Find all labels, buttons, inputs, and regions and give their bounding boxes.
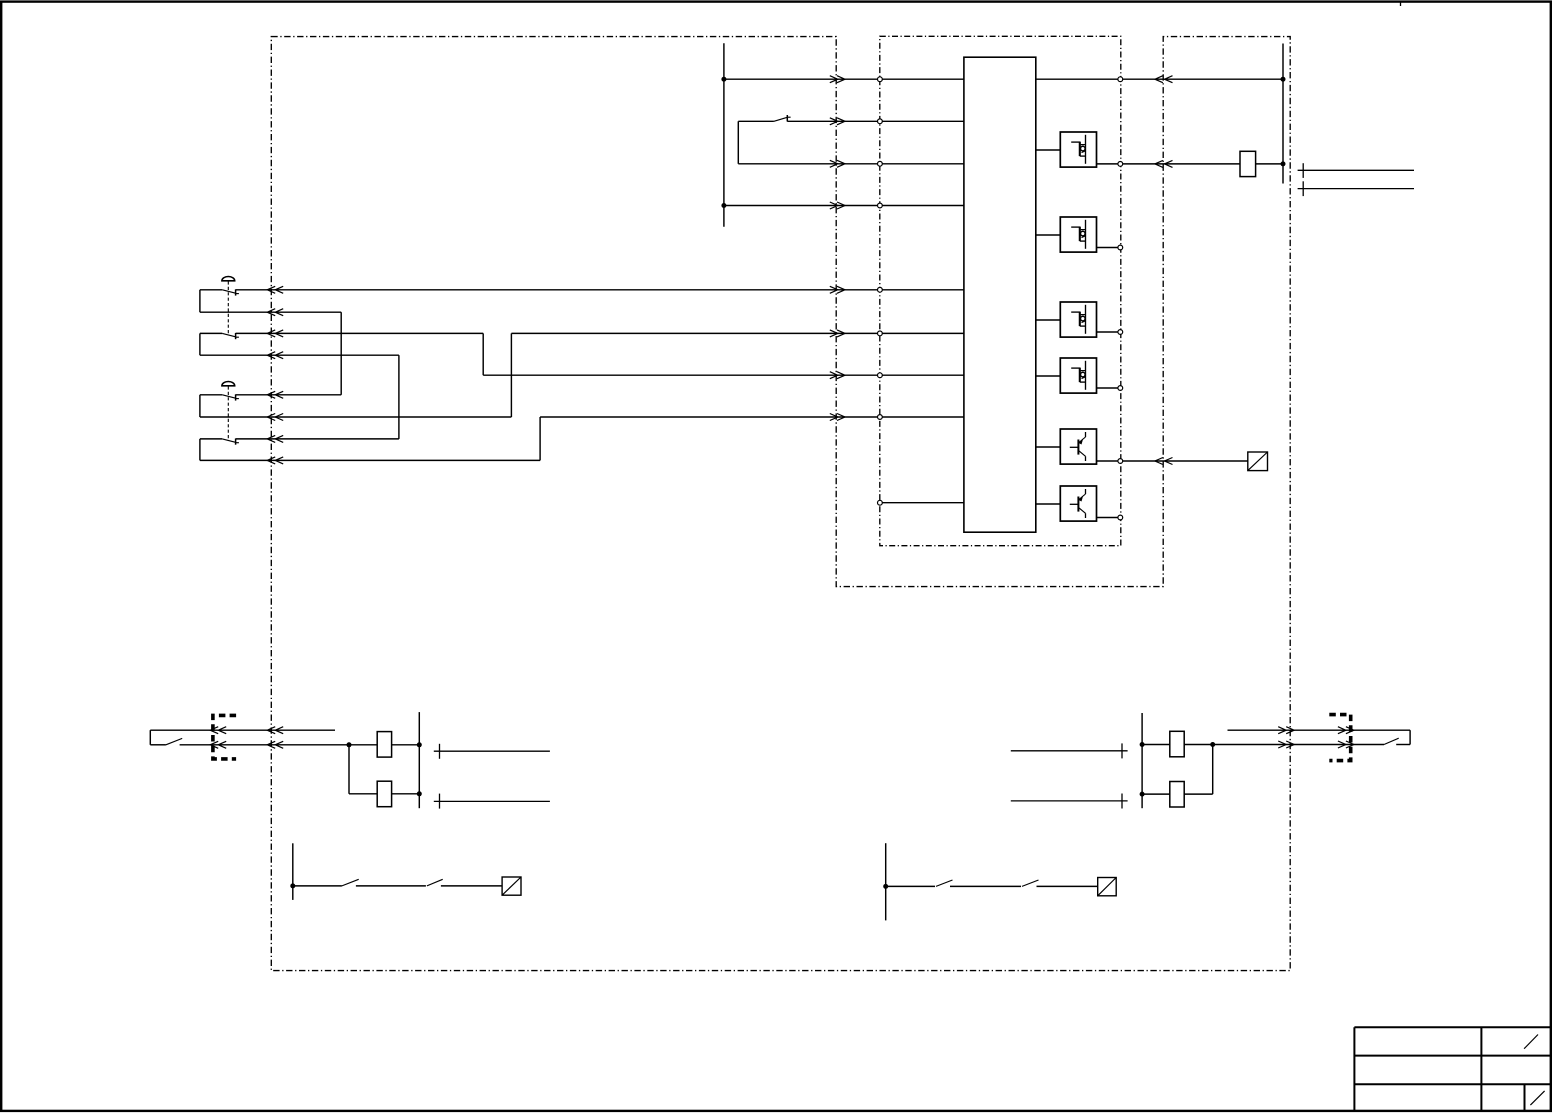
wire R3 loop to module [738,163,964,165]
title block table [1354,1027,1551,1111]
E-stop contact on L5 [222,394,239,400]
wire L7 main [236,438,399,440]
return bus vertical left [418,712,420,808]
wire bottom-right line2 [1213,744,1384,746]
driver transistor Q2 [1060,486,1096,521]
module pin circle input 9 [878,500,883,505]
junction right rail row1 [1281,77,1286,82]
arrow T1 row out of module [1155,160,1173,167]
controller IC U1 [964,57,1036,532]
cabinet enclosure boundary (dash-dot polygon with notch) [271,37,1290,971]
connector plug bracket 1 [199,290,201,312]
arrows bottom-left at cabinet wall [267,727,283,734]
connector plug bracket 2 [199,333,201,355]
wire bottom-right line1 [1228,729,1411,731]
ladder wire segment 3 [441,885,502,887]
arrows bottom-left at shell [210,727,226,734]
ladder right wire segment 2 [950,885,1021,887]
output wire from driver opto U2 [1097,163,1121,165]
E-stop linkage dashed 1 [227,281,229,335]
switch lever bottom-left [166,738,182,744]
crossover vertical V3 (L3 down to R7) [482,333,484,375]
connector shell bold dashed left [213,715,236,759]
ladder wire segment 2 [356,885,426,887]
arrows L1-L8 into cabinet wall [267,286,283,293]
ladder right wire segment 1 [886,885,935,887]
ladder right switch 1 lever [936,880,953,886]
wire L6 [200,416,512,418]
wire bottom line2 main [180,744,378,746]
wire L2 [200,311,341,313]
wire L1 stub [200,289,222,291]
control module A1 boundary [880,36,1121,545]
cable line K4 with tick [1011,794,1128,809]
crossover vertical V2 (L4-L7) [398,355,400,439]
wire T1 output to fuse [1123,163,1240,165]
connector shell bold dashed right [1329,715,1350,761]
module pin circle row1 right [1118,77,1123,82]
wire K1 to bus [392,744,420,746]
wire IC to driver opto U2 [1036,149,1061,151]
wire L3 stub [200,332,222,334]
wire L5 stub [200,394,222,396]
relay coil K4 [1170,782,1184,808]
module pin circles R5-R8 [878,287,883,292]
feedback loop vertical [737,121,739,164]
connector bracket right bottom [1409,730,1411,744]
driver opto U5 [1060,358,1096,393]
wire bottom line1 left [150,729,335,731]
E-stop actuator dome 1 [222,277,235,281]
return bus vertical right [1141,713,1143,808]
junction K3 branch [1210,742,1215,747]
title block slash 1 [1524,1035,1538,1049]
ladder right wire segment 3 [1037,885,1098,887]
ladder drop vertical right [885,843,887,920]
E-stop contact on L7 [222,439,239,445]
module pin circle out 1 [1118,162,1123,167]
wire fuse to right rail [1256,163,1283,165]
wire IC to driver transistor Q1 [1036,446,1061,448]
wire L4 [200,354,399,356]
crossover vertical V5 (L8 up to R8) [539,417,541,460]
relay coil K3 [1170,731,1184,757]
wire bottom line2 stub [150,744,166,746]
arrow T5 row out of module [1155,458,1173,465]
E-stop actuator dome 2 [222,381,235,385]
cable line K2 with tick [434,794,550,809]
junction K4 bus [1140,792,1145,797]
module pin circle out 6 [1118,515,1123,520]
wire bus to K4 [1142,793,1170,795]
wire R2 right segment [787,120,964,122]
switch contact on R2 [774,115,791,122]
wire L8 [200,459,540,461]
ladder drop vertical left [292,843,294,900]
limit switch box left (diagonal) [502,877,521,895]
solenoid valve Y1 (box with diagonal) [1248,452,1268,471]
driver opto U3 [1060,217,1096,252]
wire R7 to module [483,374,964,376]
module pin circles R1-R4 [878,77,883,82]
cable tick lower [1302,181,1304,196]
driver transistor Q1 [1060,429,1096,464]
junction ladder left [290,883,295,888]
wire K2 to bus [392,793,420,795]
output wire from driver transistor Q1 [1097,460,1121,462]
external cable pair upper line [1298,169,1414,171]
cable line K1 with tick [434,744,550,759]
cable line K3 with tick [1011,743,1128,758]
wire L5 main [236,394,342,396]
wire bus to K3 [1142,744,1170,746]
relay coil K1 [377,732,391,758]
wire R4 bus to module [724,205,964,207]
power bus vertical [723,43,725,227]
fuse F1 [1240,151,1256,176]
module pin circle out 2 [1118,245,1123,250]
wire L3 main [236,332,484,334]
arrows bottom-right at cabinet wall [1278,727,1294,734]
wire bottom-right line2 stub [1396,744,1410,746]
crossover vertical V4 (L6 up to R6) [510,333,512,417]
branch vertical to K2 [348,745,350,794]
junction K3 bus [1140,742,1145,747]
junction ladder right [883,884,888,889]
E-stop contact on L3 [222,333,239,339]
E-stop linkage dashed 2 [227,386,229,440]
arrows R5-R8 into module wall [830,286,845,293]
wire R2 left segment [738,120,774,122]
cable tick upper [1302,163,1304,178]
wire L1 main [236,289,964,291]
arrows bottom-right at shell [1338,727,1354,734]
output wire from driver opto U3 [1097,247,1121,249]
arrow row1 out of module [1155,76,1173,83]
junction on bus at R1 [721,77,726,82]
ladder switch 2 lever [427,879,443,886]
output wire from driver opto U5 [1097,387,1121,389]
driver opto U2 [1060,132,1096,167]
wire K4 to branch [1184,793,1213,795]
fold mark tick top frame [1400,2,1402,7]
wire R1 bus to module [724,78,964,80]
ladder wire segment 1 [293,885,342,887]
wire R6 to module [511,332,964,334]
switch lever bottom-right [1384,738,1399,744]
ladder switch 1 lever [342,879,359,886]
junction line2 branch [347,742,352,747]
title block slash 2 [1530,1091,1544,1105]
module pin circle out 4 [1118,386,1123,391]
wire IC to driver opto U4 [1036,319,1061,321]
junction on bus at R4 [721,203,726,208]
crossover vertical V1 (L2-L5) [340,312,342,395]
wire L7 stub [200,438,222,440]
wire input 9 to IC [882,502,964,504]
wire K3 to branch [1184,744,1213,746]
E-stop contact on L1 [222,289,239,295]
ladder right switch 2 lever [1022,880,1039,886]
junction right rail T1 row [1281,161,1286,166]
branch vertical K4 [1212,745,1214,795]
output wire from driver transistor Q2 [1097,517,1121,519]
junction K2 bus [417,791,422,796]
wire R8 to module [540,416,964,418]
wire T5 output to solenoid [1123,460,1248,462]
driver opto U4 [1060,302,1096,337]
wire row1 IC to right rail [1036,78,1283,80]
output wire from driver opto U4 [1097,331,1121,333]
module pin circle out 3 [1118,330,1123,335]
connector bracket left bottom [149,730,151,745]
limit switch box right (diagonal) [1098,878,1117,896]
wire IC to driver transistor Q2 [1036,503,1061,505]
wire branch to K2 [349,793,377,795]
connector plug bracket 4 [199,439,201,461]
right rail vertical [1282,44,1284,184]
junction K1 bus [417,742,422,747]
relay coil K2 [377,781,391,807]
external cable pair lower line [1298,188,1414,190]
wire IC to driver opto U3 [1036,234,1061,236]
wire IC to driver opto U5 [1036,375,1061,377]
connector plug bracket 3 [199,395,201,417]
module pin circle out 5 [1118,459,1123,464]
arrows R1-R4 into cabinet wall [830,76,845,83]
